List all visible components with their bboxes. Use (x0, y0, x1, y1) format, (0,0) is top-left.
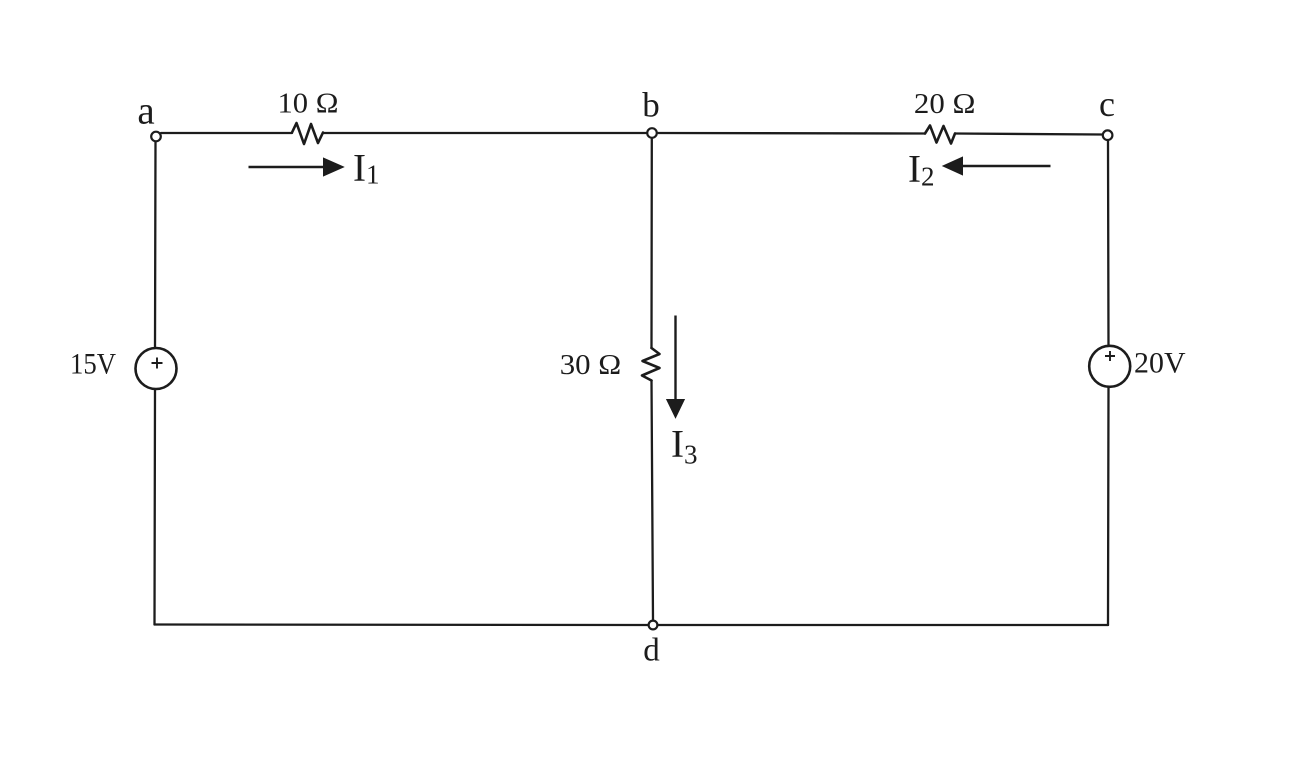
wire node b down to resistor 30ohm (650, 139, 653, 348)
20V source plus sign (1105, 351, 1115, 361)
wire node a down to 15V source (154, 142, 157, 348)
wire 15V source to bottom-left corner (153, 389, 156, 625)
wire bottom right: node d to corner (658, 624, 1108, 626)
resistor 20 ohm (925, 126, 955, 144)
wire bottom left: corner to node d (155, 623, 649, 626)
wire node c down to 20V source (1107, 141, 1110, 346)
15V source plus sign (152, 358, 163, 369)
wire resistor 30ohm to node d (652, 381, 654, 621)
svg-text:15V: 15V (70, 348, 116, 381)
resistor 10 ohm (292, 123, 323, 144)
wire top-left: node a to resistor 10ohm (161, 132, 292, 134)
node d terminal circle (649, 621, 658, 630)
svg-text:d: d (643, 633, 660, 669)
svg-text:10 Ω: 10 Ω (278, 87, 339, 119)
wire resistor 10ohm to node b (323, 132, 646, 134)
svg-text:20V: 20V (1134, 347, 1186, 380)
svg-text:a: a (137, 90, 154, 133)
node a terminal circle (151, 132, 161, 142)
svg-text:b: b (642, 86, 660, 125)
node c terminal circle (1103, 130, 1113, 140)
wire 20V source down to bottom-right corner (1107, 387, 1110, 625)
node b terminal circle (647, 128, 657, 138)
current arrow I3 (667, 316, 685, 418)
svg-text:c: c (1099, 84, 1115, 124)
resistor 30 ohm (642, 348, 660, 381)
voltage source 15V circle (136, 348, 177, 389)
wire resistor 20ohm to node c (955, 134, 1102, 135)
current arrow I2 (943, 157, 1051, 175)
voltage source 20V circle (1089, 346, 1130, 387)
current arrow I1 (249, 158, 344, 176)
wire node b to resistor 20ohm (658, 132, 925, 135)
svg-text:30 Ω: 30 Ω (560, 349, 622, 381)
svg-text:20 Ω: 20 Ω (914, 88, 976, 120)
